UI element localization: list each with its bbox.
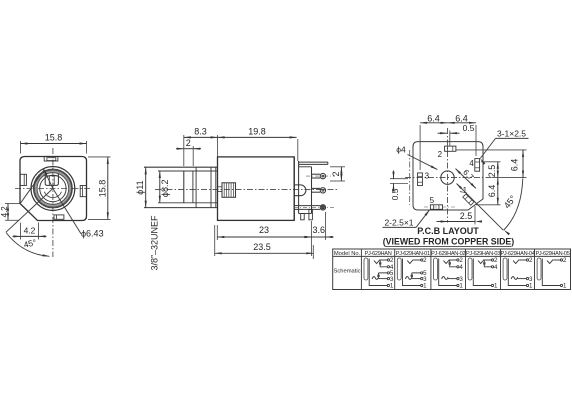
- svg-text:15.8: 15.8: [97, 180, 107, 198]
- svg-text:2-2.5×1: 2-2.5×1: [384, 217, 413, 227]
- svg-text:PJ-629HAN-04: PJ-629HAN-04: [500, 251, 534, 257]
- svg-text:4: 4: [469, 159, 474, 168]
- svg-text:ϕ8.2: ϕ8.2: [160, 180, 170, 198]
- svg-text:2: 2: [438, 150, 443, 159]
- svg-text:ϕ6.43: ϕ6.43: [81, 229, 104, 239]
- svg-text:6.4: 6.4: [509, 159, 519, 172]
- svg-text:0.5: 0.5: [463, 123, 475, 133]
- svg-text:PJ-629HAN-01: PJ-629HAN-01: [396, 251, 430, 257]
- svg-text:Schematic: Schematic: [334, 269, 361, 275]
- svg-text:1: 1: [390, 283, 394, 290]
- svg-text:2: 2: [423, 257, 427, 264]
- svg-text:4: 4: [494, 264, 498, 271]
- svg-text:3.6: 3.6: [313, 225, 326, 235]
- svg-text:P.C.B LAYOUT: P.C.B LAYOUT: [417, 226, 479, 236]
- svg-text:1: 1: [494, 283, 498, 290]
- svg-text:2: 2: [529, 257, 533, 264]
- svg-text:ϕ11: ϕ11: [135, 180, 145, 194]
- svg-text:4.2: 4.2: [0, 206, 9, 218]
- svg-text:1: 1: [563, 283, 567, 290]
- svg-text:3-1×2.5: 3-1×2.5: [497, 129, 526, 139]
- svg-text:15.8: 15.8: [45, 133, 63, 143]
- svg-text:3: 3: [425, 171, 430, 180]
- svg-text:PJ-629HAN-03: PJ-629HAN-03: [466, 251, 500, 257]
- svg-text:1: 1: [459, 283, 463, 290]
- svg-text:2.5: 2.5: [487, 165, 497, 178]
- svg-text:1: 1: [529, 283, 533, 290]
- svg-text:3/8”–32UNEF: 3/8”–32UNEF: [150, 215, 160, 271]
- svg-text:PJ-629HAN-05: PJ-629HAN-05: [535, 251, 569, 257]
- svg-text:0.5: 0.5: [390, 188, 400, 200]
- svg-text:Model No.: Model No.: [334, 251, 361, 257]
- svg-text:6.4: 6.4: [455, 113, 468, 123]
- svg-text:ϕ4: ϕ4: [396, 145, 406, 155]
- svg-text:PJ-629HAN-02: PJ-629HAN-02: [431, 251, 465, 257]
- svg-text:6.4: 6.4: [487, 185, 497, 198]
- svg-text:4: 4: [459, 264, 463, 271]
- svg-text:2: 2: [186, 138, 191, 148]
- svg-text:19.8: 19.8: [248, 127, 266, 137]
- svg-text:2.5: 2.5: [460, 211, 473, 221]
- svg-text:6.4: 6.4: [427, 113, 440, 123]
- svg-text:23: 23: [259, 225, 269, 235]
- svg-text:PJ-629HAN: PJ-629HAN: [365, 251, 392, 257]
- svg-text:23.5: 23.5: [253, 242, 271, 252]
- svg-text:(VIEWED FROM COPPER SIDE): (VIEWED FROM COPPER SIDE): [383, 236, 515, 246]
- svg-text:4.2: 4.2: [24, 226, 36, 236]
- svg-text:1: 1: [423, 283, 427, 290]
- svg-text:2: 2: [331, 171, 341, 176]
- svg-text:8.3: 8.3: [194, 127, 207, 137]
- svg-text:5: 5: [430, 196, 435, 205]
- svg-text:2: 2: [563, 257, 567, 264]
